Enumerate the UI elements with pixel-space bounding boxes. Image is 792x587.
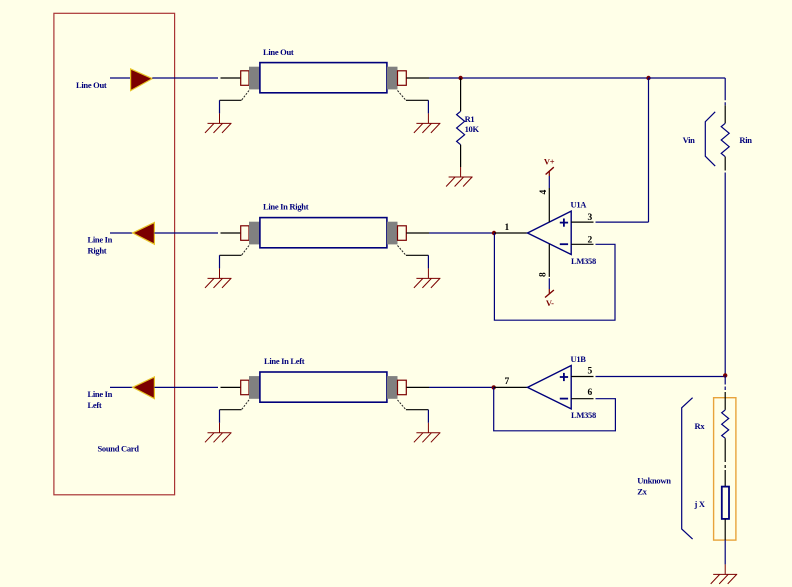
svg-text:LM358: LM358 [571, 256, 596, 266]
coax cable Line In Right [221, 202, 430, 248]
coax2 left shield stub [242, 246, 250, 256]
svg-text:10K: 10K [465, 124, 480, 134]
wire [427, 100, 429, 113]
wire [429, 77, 649, 79]
coax2 right shield stub [398, 246, 406, 256]
pin 8 wire [548, 244, 550, 277]
wire [429, 386, 494, 388]
port arrow Line In Right [133, 223, 155, 245]
svg-text:Rin: Rin [739, 135, 752, 145]
resistor Rin [721, 105, 752, 170]
svg-text:V-: V- [546, 298, 554, 308]
svg-text:4: 4 [539, 190, 549, 195]
ground [414, 113, 441, 132]
node junction [723, 373, 727, 377]
svg-text:Sound Card: Sound Card [98, 444, 140, 454]
power symbol V+ [546, 167, 554, 174]
right rail wire [724, 78, 726, 105]
wire [649, 77, 726, 79]
wire [219, 100, 221, 113]
ground [205, 268, 232, 288]
ground [711, 564, 738, 584]
pin 2 wire [571, 243, 593, 245]
pin 7 wire [494, 386, 528, 388]
pin 6 wire [571, 398, 593, 400]
pin 1 wire [494, 232, 527, 234]
ground [205, 113, 232, 132]
svg-text:Line In: Line In [88, 389, 113, 399]
svg-text:Line Out: Line Out [76, 80, 107, 90]
resistor R1 [457, 78, 480, 167]
wire [427, 255, 429, 268]
port arrow Line Out [131, 69, 153, 91]
svg-text:Right: Right [88, 246, 107, 256]
wire [219, 255, 221, 268]
svg-text:LM358: LM358 [571, 410, 596, 420]
coax1 right shield stub [398, 91, 406, 101]
wire [110, 77, 131, 79]
pin 4 wire [548, 188, 550, 222]
coax3 right shield stub [398, 400, 406, 410]
svg-text:Zx: Zx [637, 487, 647, 497]
wire [154, 386, 218, 388]
svg-text:j X: j X [694, 499, 706, 509]
reactance jX [694, 465, 730, 540]
wire [429, 232, 494, 234]
unknown impedance box [714, 398, 736, 540]
pin 3 wire [571, 221, 593, 223]
svg-text:V+: V+ [544, 156, 555, 166]
wire [110, 232, 133, 234]
svg-text:Rx: Rx [695, 421, 706, 431]
power symbol V- [545, 290, 554, 298]
ground [414, 423, 441, 443]
svg-text:7: 7 [505, 377, 510, 387]
node junction [458, 76, 462, 80]
wire [427, 410, 429, 423]
svg-text:Line In Left: Line In Left [264, 356, 305, 366]
node junction [646, 76, 650, 80]
svg-text:Vin: Vin [683, 135, 696, 145]
svg-text:Unknown: Unknown [637, 476, 671, 486]
wire [219, 410, 221, 423]
wire [724, 375, 726, 390]
op-amp U1A [528, 200, 596, 266]
svg-text:Left: Left [88, 400, 102, 410]
coax cable Line Out [221, 47, 430, 93]
svg-text:6: 6 [588, 388, 593, 398]
port arrow Line In Left [133, 377, 155, 399]
sound card box [54, 13, 175, 495]
op-amp U1B [528, 354, 596, 420]
svg-text:8: 8 [539, 272, 549, 277]
coax1 left shield stub [242, 91, 250, 101]
svg-text:3: 3 [588, 213, 593, 223]
svg-text:Line Out: Line Out [263, 47, 294, 57]
ground [205, 423, 232, 443]
feedback wire U1A [494, 233, 615, 320]
svg-text:Line In: Line In [88, 235, 113, 245]
wire [154, 232, 218, 234]
coax3 left shield stub [242, 400, 250, 410]
ground [414, 268, 441, 288]
svg-text:U1A: U1A [571, 200, 588, 210]
Zx bracket [682, 398, 693, 539]
svg-text:1: 1 [505, 223, 510, 233]
svg-text:5: 5 [588, 366, 593, 376]
wire [724, 173, 726, 376]
coax cable Line In Left [221, 356, 430, 402]
wire [152, 77, 218, 79]
svg-text:U1B: U1B [571, 354, 587, 364]
wire [110, 386, 133, 388]
wire [724, 540, 726, 564]
node junction [492, 231, 496, 235]
svg-text:Line In Right: Line In Right [263, 202, 309, 212]
Vin bracket [705, 112, 715, 166]
ground [446, 167, 473, 187]
wire [648, 78, 650, 222]
pin 5 wire [571, 376, 593, 378]
svg-text:R1: R1 [465, 114, 475, 124]
node junction [492, 385, 496, 389]
resistor Rx [695, 392, 729, 462]
feedback wire U1B [494, 387, 616, 430]
